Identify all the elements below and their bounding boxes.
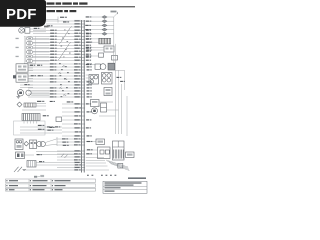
wire — [20, 86, 33, 88]
ECM pin label — [87, 87, 90, 88]
wire — [86, 16, 114, 18]
wire — [86, 77, 89, 79]
wire — [28, 93, 81, 95]
sensor stack bus wire — [25, 37, 27, 62]
wire label — [37, 101, 41, 102]
wire label — [50, 42, 54, 43]
wire label — [74, 138, 78, 139]
solenoid circle — [100, 64, 106, 70]
injector feed arrow — [114, 13, 118, 17]
ECM connector bus right rail — [83, 20, 85, 173]
bus pin tick — [81, 107, 85, 109]
harness wire 4 — [124, 70, 126, 90]
wire stub — [99, 115, 116, 117]
junction label — [38, 125, 42, 126]
document title line 1 (diagnostico del motor) — [47, 2, 55, 4]
wire — [28, 70, 33, 72]
small junction box — [118, 164, 123, 169]
wire — [31, 92, 49, 94]
wire label — [62, 138, 66, 139]
wire — [28, 78, 33, 80]
wire — [28, 66, 81, 68]
wire label — [74, 63, 78, 64]
wire label — [74, 84, 81, 86]
wire — [26, 169, 57, 171]
pin label — [16, 38, 19, 39]
wire label — [50, 93, 54, 94]
wire label — [74, 150, 81, 152]
fuel pump motor M1 — [17, 90, 23, 96]
info box — [103, 181, 147, 193]
wire — [92, 64, 95, 66]
twisted-pair specks — [61, 30, 71, 58]
wire label — [74, 53, 81, 55]
ground G1 — [17, 94, 19, 97]
wire — [30, 28, 46, 30]
bus pin tick — [81, 26, 85, 28]
wire label — [34, 28, 37, 29]
bus pin tick — [81, 87, 85, 89]
wire label — [75, 107, 79, 108]
ECM pin label — [87, 111, 90, 112]
injector wire label — [86, 33, 89, 34]
ECM pin label — [86, 45, 89, 46]
wire label — [87, 149, 90, 150]
junction box outline — [14, 121, 46, 135]
fuse F1 — [13, 75, 16, 78]
wire — [86, 165, 108, 167]
wire — [20, 132, 62, 134]
wire — [86, 149, 98, 151]
wire label — [75, 131, 79, 132]
wire — [57, 150, 81, 152]
ECM pin label — [86, 103, 89, 104]
wire label — [74, 144, 78, 145]
bus pin tick — [81, 159, 85, 161]
wire — [30, 31, 46, 33]
wire — [28, 90, 81, 92]
ECM pin label — [87, 63, 90, 64]
wire label — [74, 162, 81, 164]
harness label 2 — [120, 81, 123, 82]
bus pin tick — [81, 47, 85, 49]
wire — [57, 141, 81, 143]
bus pin tick — [81, 93, 85, 95]
ECM pin label — [86, 36, 89, 37]
wire label — [74, 69, 78, 70]
battery B1 — [16, 152, 25, 159]
bus pin tick — [81, 164, 85, 166]
wire label — [50, 48, 54, 49]
wire label — [67, 101, 71, 102]
bus pin tick — [81, 156, 85, 158]
wire — [20, 84, 33, 86]
wire label — [39, 161, 42, 162]
wire — [57, 144, 81, 146]
wire label — [86, 55, 89, 56]
junction label 2 — [38, 129, 42, 130]
connector pins — [24, 121, 37, 124]
wire — [92, 38, 99, 40]
wire — [36, 154, 81, 156]
ECM pin label — [87, 135, 90, 136]
wire label — [37, 154, 40, 155]
wire label — [74, 23, 81, 25]
wire label — [74, 156, 81, 158]
wire label — [74, 20, 81, 22]
pin label — [16, 47, 19, 48]
diode diamond — [24, 141, 29, 146]
injector wire label — [86, 21, 89, 22]
bus pin tick — [81, 144, 85, 146]
wire — [28, 87, 81, 89]
wire label — [74, 87, 78, 88]
wire — [92, 47, 104, 49]
wire label — [74, 78, 81, 80]
wire label — [50, 90, 54, 91]
solenoid box V2 — [102, 73, 113, 85]
wire label — [75, 164, 79, 165]
footnote marks — [87, 175, 116, 176]
wire label — [50, 51, 54, 52]
wire — [28, 72, 81, 74]
wire — [62, 107, 81, 109]
injector wire label — [86, 16, 89, 17]
wire — [62, 135, 81, 137]
wire — [57, 164, 81, 166]
info box text line 1 — [105, 182, 142, 183]
wire label — [50, 33, 54, 34]
sensor connector 3 — [27, 46, 33, 49]
wire — [46, 23, 81, 25]
bus pin tick — [81, 41, 85, 43]
wire label — [74, 119, 81, 121]
wire — [36, 162, 57, 164]
ECM pin label — [87, 93, 90, 94]
wire — [28, 81, 81, 83]
wire — [28, 78, 81, 80]
pin label — [16, 56, 19, 57]
wire — [92, 41, 99, 43]
harness label — [117, 77, 120, 78]
info box text line 3 — [105, 187, 121, 188]
legend row 1 (1 Sensor CKP / 3 Rele bomba / 5 ...) — [6, 179, 96, 182]
bus pin tick — [81, 90, 85, 92]
wire label — [30, 65, 33, 66]
small box center — [56, 117, 62, 122]
twisted-pair bundle — [59, 26, 72, 44]
ECM pin label — [86, 39, 89, 40]
wire label — [74, 72, 81, 74]
sensor connector 2 — [27, 42, 33, 45]
wire label — [74, 141, 81, 143]
bus pin tick — [81, 32, 85, 34]
wire — [28, 65, 33, 67]
connector CN1 hatched — [22, 114, 40, 121]
pin label — [44, 26, 49, 28]
ECM pin label — [86, 54, 89, 55]
wire — [62, 127, 81, 129]
pump circle M2 — [92, 108, 98, 114]
harness wire 5 — [126, 96, 128, 136]
resistor pack R2 — [24, 103, 36, 107]
wire — [86, 162, 106, 164]
wire — [28, 69, 81, 71]
wire — [98, 105, 101, 107]
wire — [86, 24, 114, 26]
wire — [33, 38, 50, 40]
twisted pair marks — [61, 154, 68, 158]
injector 1 — [102, 16, 107, 19]
ECM connector bus left rail — [80, 20, 82, 173]
bus pin tick — [81, 135, 85, 137]
wire — [86, 169, 109, 171]
relay box K2 — [16, 74, 28, 82]
wire — [92, 49, 104, 51]
sensor stack outline — [24, 36, 36, 63]
bus pin tick — [81, 69, 85, 71]
bus pin tick — [81, 169, 85, 171]
ECM pin label — [87, 96, 90, 97]
bus pin tick — [81, 44, 85, 46]
harness wire 2 — [118, 70, 120, 134]
wire — [46, 19, 58, 21]
wire — [86, 160, 105, 162]
wire label — [86, 38, 89, 39]
ECM pin label — [86, 30, 89, 31]
wire label — [63, 145, 67, 146]
stray label — [50, 101, 53, 102]
wire — [57, 156, 81, 158]
wire — [33, 42, 50, 44]
wire label — [47, 130, 51, 131]
relay box W1 — [96, 139, 105, 145]
wire label — [74, 90, 81, 92]
wire — [28, 67, 33, 69]
bus pin tick — [81, 66, 85, 68]
bus pin tick — [81, 127, 85, 129]
bus pin tick — [81, 111, 85, 113]
solenoid box V1 — [89, 75, 99, 85]
info box text line 4 — [105, 191, 115, 192]
wire label — [50, 96, 54, 97]
bus pin tick — [81, 96, 85, 98]
wire label — [74, 66, 81, 68]
bus pin tick — [81, 162, 85, 164]
bus pin tick — [81, 72, 85, 74]
injector wire label — [85, 25, 88, 26]
relay box W2 — [98, 147, 111, 159]
legend row 2 (2 Sensor CMP / 4 Bomba comb / 6 ...) — [6, 184, 96, 187]
pump connector — [26, 90, 31, 95]
wire label — [87, 141, 90, 142]
diagonal harness — [106, 160, 130, 171]
info box text line 2 — [105, 185, 134, 186]
vertical wire — [113, 44, 115, 70]
sensor diamond — [17, 102, 22, 107]
wire — [62, 115, 81, 117]
bus pin tick — [81, 131, 85, 133]
ECM pin label — [86, 42, 89, 43]
ECM pin label — [87, 90, 90, 91]
wire label — [74, 47, 81, 49]
wire label — [86, 153, 89, 154]
wire label — [37, 65, 40, 66]
twisted-pair bundle 2 — [58, 42, 71, 60]
cell box — [101, 103, 107, 112]
wire — [36, 103, 46, 105]
bus pin tick — [81, 56, 85, 58]
wire label — [50, 54, 54, 55]
node tick — [57, 17, 59, 23]
wire label — [74, 45, 78, 46]
bus pin tick — [81, 59, 85, 61]
wire label — [74, 169, 78, 170]
wire — [57, 159, 81, 161]
wire label — [50, 78, 54, 79]
bus pin tick — [81, 123, 85, 125]
relay box — [95, 64, 100, 69]
ECM pin label — [86, 119, 89, 120]
wire label — [50, 60, 54, 61]
dark module — [108, 63, 115, 70]
ignition switch circle — [19, 28, 25, 34]
wire label — [50, 30, 54, 31]
wire label — [74, 111, 81, 113]
wire label — [86, 50, 89, 51]
wire diagonal — [45, 144, 57, 145]
connector CN2 — [27, 161, 36, 168]
wire — [33, 41, 81, 43]
ECM pin label — [87, 69, 90, 70]
wire — [36, 164, 57, 166]
wire — [86, 141, 96, 143]
injector 2 — [102, 20, 107, 23]
injector feed wire — [113, 17, 115, 44]
sensor connector 5 — [27, 55, 33, 58]
wire label — [50, 81, 54, 82]
wire label — [74, 96, 81, 98]
wire label — [50, 63, 54, 64]
bus pin tick — [81, 167, 85, 169]
ECM pin label — [86, 51, 89, 52]
wire — [36, 105, 46, 107]
injector wire label — [85, 29, 88, 30]
wire label — [74, 153, 78, 154]
wire — [33, 47, 50, 49]
wire — [33, 47, 81, 49]
wire label — [50, 87, 54, 88]
sensor connector 1 — [27, 37, 33, 40]
wire label — [43, 115, 47, 116]
wire label — [50, 66, 54, 67]
ground G2 diagonal — [14, 167, 19, 172]
wire — [28, 96, 81, 98]
wire label — [74, 41, 81, 43]
wire — [25, 154, 35, 156]
stray label 2 — [49, 127, 52, 128]
ECM pin label — [86, 33, 89, 34]
wire — [33, 32, 81, 34]
bus pin tick — [81, 63, 85, 65]
wire label — [74, 135, 81, 137]
wire label — [74, 127, 81, 129]
wire — [62, 111, 81, 113]
wire — [33, 38, 81, 40]
bus pin tick — [81, 35, 85, 37]
sensor box — [91, 100, 100, 107]
wire — [28, 84, 81, 86]
wire label — [74, 93, 78, 94]
bus pin tick — [81, 138, 85, 140]
bus pin tick — [81, 150, 85, 152]
wire — [28, 75, 33, 77]
document subtitle line (motor cable del ECM) — [47, 10, 56, 12]
wire — [46, 26, 81, 28]
legend pointer — [34, 176, 37, 178]
wire stub — [107, 109, 119, 111]
svg-text:PDF: PDF — [6, 6, 37, 23]
coil pack — [30, 140, 37, 149]
page reference text — [128, 177, 146, 179]
middle strip specks — [59, 63, 70, 97]
injector 3 — [102, 24, 107, 27]
ECM pin label — [87, 66, 90, 67]
wire — [33, 29, 81, 31]
wire label — [74, 59, 81, 61]
wire diagonal — [45, 139, 57, 143]
wire — [86, 80, 89, 82]
wire — [86, 20, 114, 22]
wire — [33, 50, 81, 52]
wire label — [74, 39, 78, 40]
ECM pin label — [86, 57, 89, 58]
sensor connector 4 — [27, 51, 33, 54]
wire — [99, 101, 113, 103]
bus pin tick — [81, 78, 85, 80]
bus pin tick — [81, 119, 85, 121]
page background — [0, 0, 149, 198]
wire label — [74, 81, 78, 82]
wire label — [74, 33, 78, 34]
wire — [28, 75, 81, 77]
feed label — [111, 11, 117, 13]
wire label — [74, 167, 81, 169]
ignition coil T1 — [15, 139, 23, 150]
wire label — [74, 123, 78, 124]
wire label — [31, 75, 34, 76]
wire label — [74, 35, 81, 37]
module box V3 — [104, 88, 112, 96]
connector block — [25, 28, 30, 34]
wire — [62, 119, 81, 121]
wire — [62, 123, 81, 125]
legend row 3 (nota) — [6, 188, 96, 191]
small box — [99, 53, 104, 57]
wire — [31, 90, 49, 92]
wire — [57, 153, 81, 155]
relay box K1 — [16, 64, 28, 72]
wire — [46, 20, 81, 22]
sensor connector 6 — [27, 60, 33, 63]
wire — [92, 55, 99, 57]
wire — [33, 53, 81, 55]
bus pin tick — [81, 75, 85, 77]
harness wire 1 — [115, 44, 117, 134]
ECM pin label — [86, 127, 89, 128]
wire — [36, 151, 81, 153]
wire label — [74, 103, 81, 105]
